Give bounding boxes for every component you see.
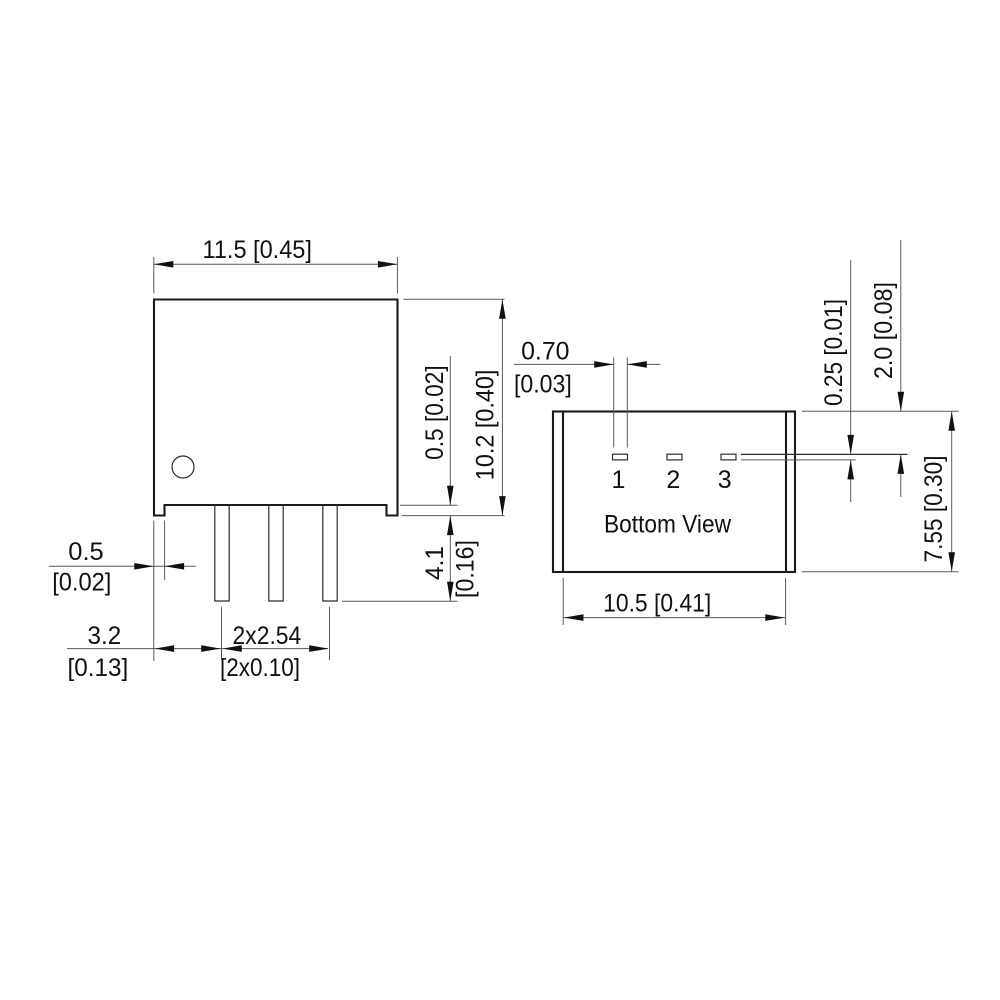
svg-text:10.5 [0.41]: 10.5 [0.41] bbox=[603, 590, 711, 618]
dimension 0.70 arrows bbox=[594, 361, 647, 368]
svg-text:0.25 [0.01]: 0.25 [0.01] bbox=[820, 299, 848, 406]
dimension 4.1 arrows bbox=[447, 516, 454, 602]
svg-text:0.5 [0.02]: 0.5 [0.02] bbox=[421, 365, 449, 460]
dimension 3.2 / 2x2.54 shared line bbox=[67, 648, 328, 650]
pin top extension line bbox=[741, 453, 908, 455]
bottom view inner right edge bbox=[785, 412, 787, 573]
dimension 2.0 arrows bbox=[898, 392, 905, 474]
svg-text:1: 1 bbox=[612, 466, 626, 494]
dimension 0.5 [0.02] left line bbox=[49, 565, 196, 567]
dimension 11.5 [0.45] arrows bbox=[154, 261, 398, 268]
dimension 3.2 extension line pin1 center bbox=[222, 607, 330, 660]
svg-text:7.55 [0.30]: 7.55 [0.30] bbox=[920, 456, 948, 563]
svg-text:11.5 [0.45]: 11.5 [0.45] bbox=[203, 236, 312, 264]
dimension 11.5 [0.45] extension lines bbox=[154, 257, 398, 294]
dimension 0.5 [0.02] left extension lines bbox=[154, 521, 165, 662]
dimension 7.55 line bbox=[951, 411, 953, 572]
svg-text:0.5: 0.5 bbox=[68, 538, 104, 566]
dimension 10.5 line bbox=[563, 617, 785, 619]
svg-text:10.2 [0.40]: 10.2 [0.40] bbox=[471, 370, 499, 481]
pin 3 pad (bottom view) bbox=[721, 454, 736, 460]
dimension 10.2 arrows bbox=[499, 299, 506, 515]
svg-text:3.2: 3.2 bbox=[88, 622, 122, 650]
svg-text:[0.03]: [0.03] bbox=[514, 370, 572, 398]
body bottom extension line bbox=[802, 571, 959, 573]
pin 2 pad (bottom view) bbox=[667, 454, 682, 460]
dimension 4.1 line bbox=[449, 516, 451, 602]
svg-text:2x2.54: 2x2.54 bbox=[233, 622, 302, 650]
dimension 0.5 right line bbox=[449, 356, 451, 505]
dimension 4.1 extension line bbox=[342, 600, 458, 602]
pin 3 (front view) bbox=[323, 505, 337, 601]
pin 1 indicator circle bbox=[172, 456, 194, 478]
dimension 0.5 right extension lines bbox=[400, 505, 505, 515]
dimension 2.0 line bbox=[900, 240, 902, 497]
dimension 0.5 right arrow bbox=[447, 486, 454, 506]
bottom view outer outline bbox=[553, 412, 795, 573]
svg-text:[0.16]: [0.16] bbox=[452, 540, 480, 598]
dimension 0.70 line bbox=[514, 363, 661, 365]
svg-text:Bottom View: Bottom View bbox=[604, 510, 732, 538]
svg-text:0.70: 0.70 bbox=[521, 338, 569, 366]
dimension 0.25 arrows bbox=[847, 435, 854, 480]
front view body outline bbox=[154, 300, 398, 516]
svg-text:2.0 [0.08]: 2.0 [0.08] bbox=[870, 282, 898, 379]
dimension 10.2 extension line bbox=[403, 298, 504, 300]
dimension 10.5 extension lines bbox=[563, 578, 785, 625]
dimension 7.55 arrows bbox=[948, 411, 955, 572]
body top extension line bbox=[802, 410, 959, 412]
dimension 2x2.54 arrows bbox=[222, 645, 328, 652]
pin bottom extension line bbox=[741, 459, 856, 461]
svg-text:[2x0.10]: [2x0.10] bbox=[220, 654, 300, 682]
dimension 11.5 [0.45] line bbox=[154, 263, 398, 265]
dimension 0.5 [0.02] left arrows bbox=[134, 563, 184, 570]
svg-text:[0.13]: [0.13] bbox=[68, 654, 129, 682]
pin 1 (front view) bbox=[215, 505, 229, 601]
pin 1 pad (bottom view) bbox=[613, 454, 628, 460]
dimension 10.2 line bbox=[501, 299, 503, 515]
svg-text:3: 3 bbox=[718, 466, 732, 494]
dimension 0.25 line bbox=[850, 260, 852, 502]
dimension 0.70 extension lines bbox=[614, 358, 628, 448]
svg-text:2: 2 bbox=[666, 466, 680, 494]
pin 2 (front view) bbox=[269, 505, 283, 601]
svg-text:[0.02]: [0.02] bbox=[52, 568, 111, 596]
dimension 3.2 arrows bbox=[155, 645, 221, 652]
bottom view inner left edge bbox=[562, 412, 564, 573]
svg-text:4.1: 4.1 bbox=[421, 546, 449, 580]
dimension 10.5 arrows bbox=[564, 614, 785, 621]
